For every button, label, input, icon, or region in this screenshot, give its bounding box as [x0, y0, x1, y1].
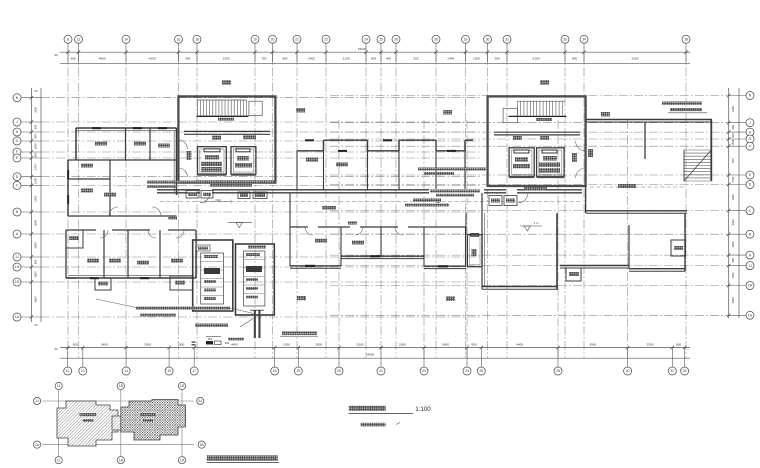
- bottom dimension lines: [60, 347, 690, 349]
- svg-text:24: 24: [465, 369, 469, 373]
- svg-text:2900: 2900: [144, 342, 151, 346]
- svg-text:1G: 1G: [15, 280, 20, 284]
- corridor utility boxes left: [186, 191, 199, 199]
- right wing bottom wall: [586, 210, 687, 212]
- svg-text:1200: 1200: [34, 178, 38, 184]
- svg-text:30: 30: [486, 38, 490, 42]
- svg-text:900: 900: [34, 259, 38, 264]
- core1 annotation text: [196, 180, 274, 183]
- svg-text:2100: 2100: [343, 56, 350, 60]
- svg-text:1J: 1J: [748, 264, 752, 268]
- key plan bubbles: [34, 397, 41, 404]
- svg-text:11: 11: [66, 38, 70, 42]
- svg-text:2500: 2500: [647, 342, 654, 346]
- svg-text:600: 600: [34, 124, 38, 129]
- elevator DT3 shaft: [509, 148, 534, 177]
- svg-text:1 m: 1 m: [534, 221, 539, 225]
- svg-text:12: 12: [77, 38, 81, 42]
- svg-text:4400: 4400: [231, 342, 238, 346]
- svg-text:28: 28: [556, 369, 560, 373]
- svg-text:1200: 1200: [731, 194, 735, 200]
- svg-text:1B: 1B: [119, 458, 124, 462]
- scale marker 1m: [520, 225, 542, 227]
- lower right block walls: [481, 193, 483, 289]
- core2 front room label: [572, 153, 577, 162]
- window well below lower row: [95, 278, 111, 290]
- svg-text:500: 500: [208, 337, 213, 341]
- svg-text:25: 25: [479, 369, 483, 373]
- right wing inner wall: [644, 122, 646, 159]
- svg-text:11: 11: [57, 384, 61, 388]
- svg-text:3000: 3000: [731, 241, 735, 247]
- main title drawing name: [349, 406, 386, 411]
- svg-text:32: 32: [670, 369, 674, 373]
- svg-text:1J: 1J: [15, 255, 19, 259]
- grid bubbles left: [13, 94, 21, 102]
- svg-text:J: J: [16, 120, 18, 124]
- shaft bottom walls: [198, 173, 227, 175]
- lower rooms stepped bottom wall: [290, 265, 341, 267]
- wall section dark bar: [254, 311, 256, 339]
- svg-text:900: 900: [495, 56, 500, 60]
- svg-text:2300: 2300: [632, 56, 639, 60]
- middle rooms partitions: [296, 151, 298, 190]
- key plan fire zone 2 hatched: [121, 400, 186, 441]
- left wing wall slots: [92, 127, 101, 129]
- electrical room walls: [193, 240, 233, 311]
- svg-text:900: 900: [731, 133, 735, 138]
- svg-text:4800: 4800: [731, 297, 735, 303]
- top dimension lines: [60, 51, 690, 53]
- grid centerlines horizontal: [41, 96, 729, 318]
- svg-text:54600: 54600: [366, 353, 375, 357]
- svg-text:20: 20: [337, 369, 341, 373]
- svg-text:17: 17: [192, 369, 196, 373]
- svg-text:21: 21: [295, 38, 299, 42]
- annotation texts lower left: [136, 307, 230, 310]
- svg-text:3000: 3000: [34, 220, 38, 226]
- left wing room labels: [95, 142, 107, 146]
- svg-text:1:100: 1:100: [415, 406, 431, 413]
- svg-text:2400: 2400: [442, 342, 449, 346]
- stair core 1 inner wall: [184, 130, 270, 132]
- svg-text:20: 20: [271, 38, 275, 42]
- corridor text right: [429, 189, 484, 198]
- svg-text:11: 11: [66, 369, 70, 373]
- svg-text:1500: 1500: [473, 56, 480, 60]
- step walls right: [560, 265, 629, 267]
- svg-text:1500: 1500: [215, 199, 221, 202]
- stair core 1 outer walls: [178, 96, 275, 182]
- svg-text:1B: 1B: [119, 384, 124, 388]
- left wing partitions lower: [66, 229, 96, 231]
- elevator DT4 shaft: [537, 148, 565, 177]
- svg-text:38: 38: [684, 38, 688, 42]
- svg-text:4800: 4800: [99, 56, 106, 60]
- svg-text:600: 600: [731, 125, 735, 130]
- svg-text:18: 18: [273, 369, 277, 373]
- smoke shaft annotation texts: [147, 181, 199, 184]
- svg-text:900: 900: [572, 56, 577, 60]
- key plan zone labels: [79, 413, 97, 417]
- left wing partitions upper: [125, 128, 127, 160]
- middle rooms wall slots: [305, 139, 314, 141]
- left wing outer walls: [76, 127, 177, 129]
- electrical room window well: [170, 276, 193, 290]
- grid centerlines vertical: [68, 52, 686, 358]
- electrical panels left: [201, 253, 224, 304]
- stair core 1 landing: [249, 101, 262, 115]
- svg-text:28: 28: [434, 38, 438, 42]
- svg-text:1300: 1300: [283, 342, 290, 346]
- svg-text:4800: 4800: [34, 296, 38, 302]
- svg-text:F: F: [16, 150, 18, 154]
- grid bubbles bottom: [64, 367, 72, 375]
- svg-text:30: 30: [626, 369, 630, 373]
- middle rooms stepped top wall: [297, 150, 324, 152]
- svg-text:2700: 2700: [731, 176, 735, 182]
- key plan grid: [42, 400, 194, 402]
- svg-text:54600: 54600: [358, 47, 367, 51]
- svg-text:34: 34: [582, 38, 586, 42]
- svg-text:2700: 2700: [33, 164, 37, 170]
- corridor door arcs: [200, 193, 210, 203]
- right wing annotations: [662, 102, 702, 105]
- right dimension lines: [728, 88, 730, 318]
- svg-text:900: 900: [676, 342, 681, 346]
- svg-text:900: 900: [179, 342, 184, 346]
- svg-text:15: 15: [167, 369, 171, 373]
- core1 front room label: [187, 151, 192, 160]
- svg-text:900: 900: [225, 341, 230, 345]
- svg-text:2000: 2000: [315, 342, 322, 346]
- svg-text:1500: 1500: [731, 139, 735, 145]
- section connector walls: [289, 193, 291, 227]
- svg-text:600: 600: [34, 152, 38, 157]
- svg-text:14: 14: [124, 38, 128, 42]
- right wing exterior stair: [684, 150, 711, 181]
- svg-text:14: 14: [124, 369, 128, 373]
- lower rooms partitions: [340, 227, 342, 266]
- svg-text:1800: 1800: [34, 271, 38, 277]
- svg-text:5A: 5A: [200, 443, 205, 447]
- svg-text:900: 900: [413, 56, 418, 60]
- svg-text:22: 22: [324, 38, 328, 42]
- window well room mid-right: [467, 235, 482, 267]
- svg-text:900: 900: [73, 342, 78, 346]
- elevator DT2 shaft: [231, 147, 256, 175]
- right wing top wall: [586, 119, 712, 121]
- core2 shared lobby label: [524, 187, 547, 191]
- svg-text:900: 900: [185, 56, 190, 60]
- right wing right wall: [710, 120, 712, 182]
- grid bubbles right: [746, 92, 754, 100]
- svg-text:1H: 1H: [748, 284, 753, 288]
- svg-text:31: 31: [505, 38, 509, 42]
- svg-text:24: 24: [364, 38, 368, 42]
- svg-text:2500: 2500: [357, 342, 364, 346]
- svg-text:4400: 4400: [516, 342, 523, 346]
- svg-text:900: 900: [282, 56, 287, 60]
- stair core 2 stair treads: [518, 101, 563, 115]
- core2 door arcs: [576, 141, 586, 151]
- left wing window well: [66, 230, 83, 248]
- svg-text:19: 19: [296, 369, 300, 373]
- svg-text:25: 25: [379, 38, 383, 42]
- svg-text:29: 29: [464, 38, 468, 42]
- svg-text:750: 750: [261, 56, 266, 60]
- svg-text:5J: 5J: [199, 399, 203, 403]
- svg-text:33: 33: [683, 369, 687, 373]
- svg-text:900: 900: [472, 342, 477, 346]
- left wing door arcs: [109, 207, 118, 216]
- svg-text:1300: 1300: [223, 56, 230, 60]
- middle rooms annotation: [418, 168, 486, 171]
- svg-text:2500: 2500: [399, 342, 406, 346]
- svg-text:3300: 3300: [33, 106, 37, 112]
- svg-text:90: 90: [54, 53, 58, 57]
- legend mini scale: [206, 336, 221, 338]
- svg-text:18: 18: [195, 38, 199, 42]
- electrical panels right: [244, 251, 265, 306]
- svg-text:G: G: [749, 137, 752, 141]
- svg-text:1A: 1A: [35, 443, 40, 447]
- corridor utility boxes right: [489, 196, 502, 206]
- key plan title: [207, 455, 278, 461]
- svg-text:3900: 3900: [589, 342, 596, 346]
- annotation right of legend: [282, 332, 317, 335]
- bike lane dashed line: [160, 201, 580, 203]
- stair core 2 landing: [503, 108, 517, 122]
- stair core 2 inner wall: [494, 131, 580, 133]
- core2 shaft bottom walls: [509, 176, 534, 178]
- svg-text:16: 16: [177, 38, 181, 42]
- stair core 1 stair treads: [198, 100, 247, 116]
- svg-text:4200: 4200: [149, 56, 156, 60]
- svg-text:1500: 1500: [34, 143, 38, 149]
- svg-text:2400: 2400: [308, 56, 315, 60]
- svg-text:1500: 1500: [731, 272, 735, 278]
- svg-text:1D: 1D: [180, 384, 185, 388]
- corridor misc labels: [322, 206, 336, 210]
- soil label upper right wing: [601, 112, 610, 117]
- svg-text:11: 11: [57, 458, 61, 462]
- stair core 2 outer walls: [488, 96, 586, 186]
- svg-text:3000: 3000: [34, 242, 38, 248]
- svg-text:3300: 3300: [731, 106, 735, 112]
- svg-text:5100: 5100: [533, 56, 540, 60]
- svg-text:1H: 1H: [15, 265, 20, 269]
- lower rooms top wall: [290, 226, 308, 228]
- svg-text:1J: 1J: [35, 399, 39, 403]
- svg-text:2400: 2400: [447, 56, 454, 60]
- svg-text:3300: 3300: [34, 195, 38, 201]
- core1 door arcs: [178, 140, 187, 149]
- svg-text:1A: 1A: [15, 315, 20, 319]
- svg-text:90: 90: [54, 347, 58, 351]
- svg-text:900: 900: [371, 56, 376, 60]
- svg-text:F: F: [749, 144, 751, 148]
- svg-text:2400: 2400: [101, 342, 108, 346]
- svg-text:1D: 1D: [180, 458, 185, 462]
- svg-text:1A: 1A: [748, 314, 753, 318]
- left dimension lines: [30, 88, 32, 322]
- key plan fire zone 1 hatched: [57, 401, 118, 446]
- svg-text:19: 19: [253, 38, 257, 42]
- svg-text:3300: 3300: [731, 219, 735, 225]
- leader lines: [240, 318, 255, 328]
- elevator DT1 shaft: [198, 147, 227, 175]
- svg-text:G: G: [16, 139, 19, 143]
- svg-text:900: 900: [34, 134, 38, 139]
- main title note: [361, 423, 386, 427]
- svg-text:600: 600: [731, 158, 735, 163]
- svg-text:33: 33: [563, 38, 567, 42]
- svg-text:26: 26: [394, 38, 398, 42]
- key plan link hatch: [112, 416, 124, 430]
- svg-text:600: 600: [71, 56, 76, 60]
- svg-text:13: 13: [81, 369, 85, 373]
- grid bubbles top: [64, 35, 72, 43]
- svg-text:450: 450: [386, 56, 391, 60]
- svg-text:900: 900: [731, 258, 735, 263]
- svg-text:J: J: [749, 121, 751, 125]
- svg-text:21: 21: [379, 369, 383, 373]
- svg-text:23: 23: [422, 369, 426, 373]
- corridor double wall: [157, 189, 200, 191]
